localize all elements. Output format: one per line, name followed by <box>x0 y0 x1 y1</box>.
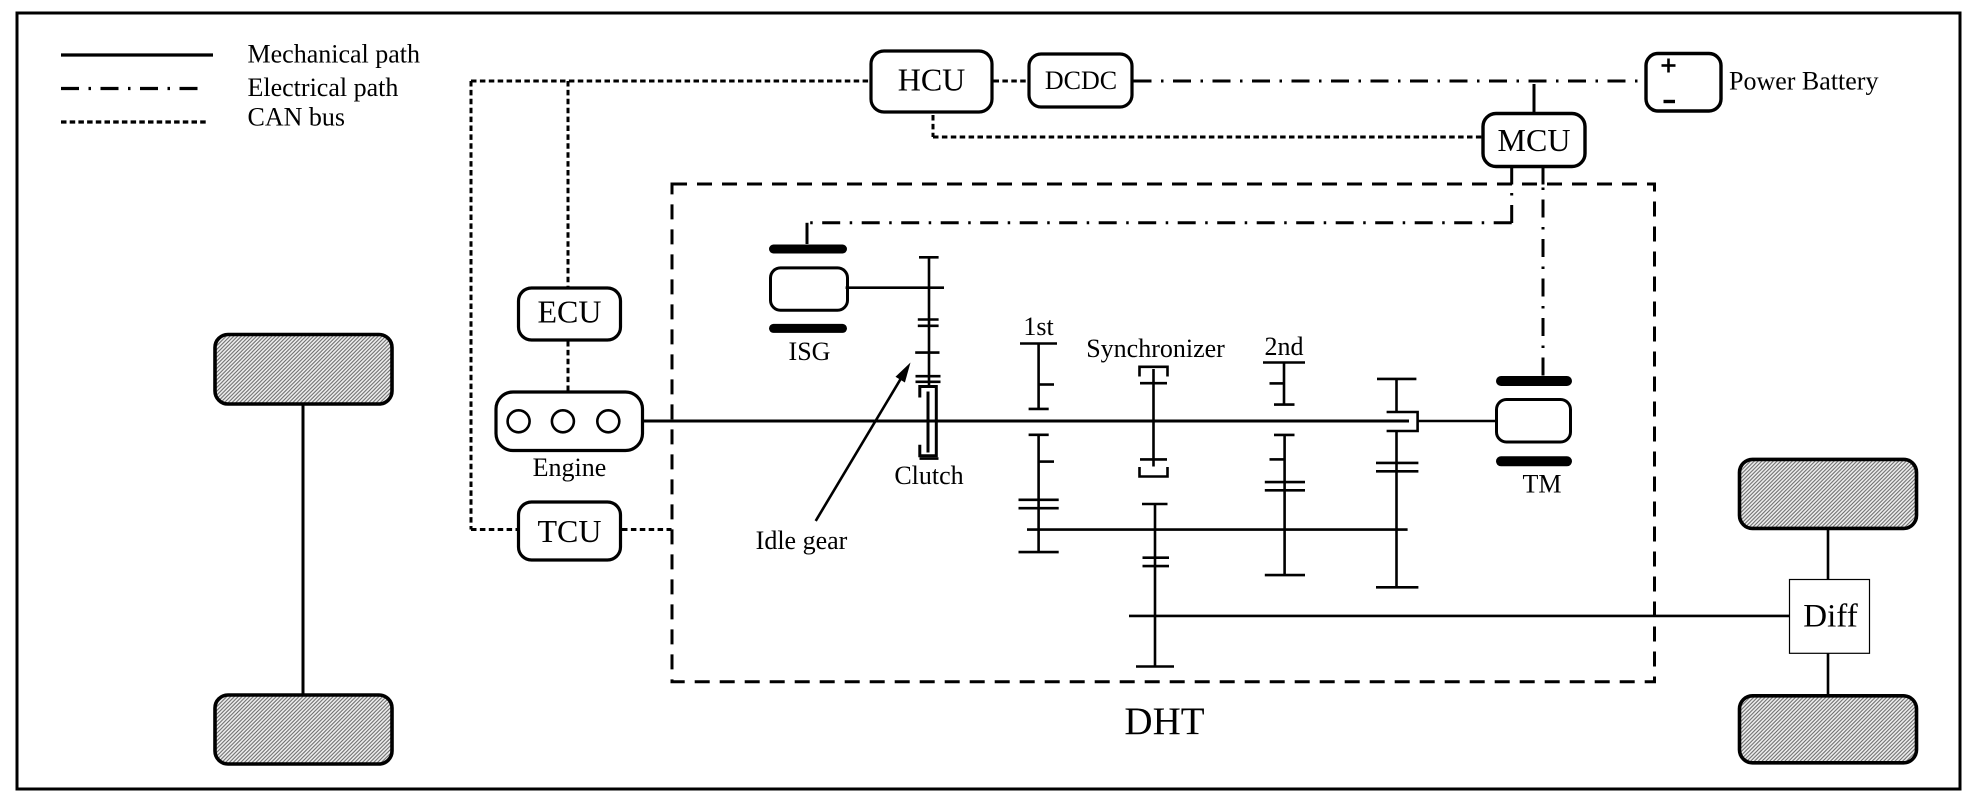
Power Battery box <box>1646 54 1721 112</box>
idle gear shaft vertical <box>928 257 931 386</box>
Diff box <box>1790 580 1870 654</box>
legend: CAN bus label <box>248 102 346 131</box>
svg-text:DHT: DHT <box>1124 700 1204 743</box>
synchronizer shaft vertical <box>1152 369 1155 467</box>
output gear column <box>1376 379 1418 587</box>
1st gear label <box>1023 312 1054 341</box>
svg-text:Clutch: Clutch <box>894 461 963 490</box>
output shaft hub bracket <box>1387 412 1418 431</box>
svg-text:TCU: TCU <box>538 513 602 549</box>
wire: electrical path DCDC to Power Battery <box>1134 80 1646 83</box>
HCU box <box>871 51 992 112</box>
MCU box <box>1483 114 1585 167</box>
2nd input gear <box>1263 363 1305 405</box>
legend: electrical path sample line <box>61 87 206 90</box>
wire: battery line to MCU top stub <box>1533 84 1536 114</box>
wire: main shaft engine to clutch/gears <box>643 420 1410 423</box>
synchronizer sleeve upper bracket <box>1140 367 1168 383</box>
wire: CAN bus TCU right to DHT box <box>622 528 672 531</box>
clutch bottom cap <box>920 457 939 460</box>
wire: electrical path MCU down to TM <box>1542 185 1545 376</box>
svg-text:Diff: Diff <box>1803 599 1857 635</box>
right wheel top <box>1740 459 1917 528</box>
wire: electrical path ISG top stub <box>806 223 809 244</box>
svg-text:DCDC: DCDC <box>1045 66 1117 95</box>
Idle gear label <box>756 526 848 555</box>
wire: CAN bus HCU bottom stub <box>932 115 935 137</box>
TM stator bottom bar <box>1496 456 1572 466</box>
TCU box <box>519 502 621 560</box>
TM rotor body <box>1497 400 1571 443</box>
svg-text:Engine: Engine <box>533 453 607 482</box>
2nd counter gear <box>1265 435 1305 575</box>
ISG stator top bar <box>769 245 847 254</box>
wire: electrical path MCU to ISG horizontal <box>807 221 1512 224</box>
svg-text:MCU: MCU <box>1498 122 1571 158</box>
idle gear mesh bars upper <box>918 320 939 326</box>
wire: CAN bus left vertical down to TCU level <box>470 81 473 530</box>
svg-text:2nd: 2nd <box>1265 332 1304 361</box>
Engine box with three cylinders <box>496 392 643 451</box>
clutch mesh bars <box>916 376 941 382</box>
wire: right axle lower <box>1827 653 1830 696</box>
wire: CAN bus vertical down to ECU <box>567 81 570 287</box>
wire: ISG to idle gear shaft <box>846 286 944 289</box>
wire: left axle <box>302 404 305 695</box>
wire: CAN bus HCU to DCDC <box>994 80 1029 83</box>
wire: CAN bus into TCU left <box>471 528 517 531</box>
Clutch label <box>894 461 963 490</box>
svg-text:Mechanical path: Mechanical path <box>248 39 421 68</box>
svg-text:Electrical path: Electrical path <box>248 73 399 102</box>
idle gear shaft top cap <box>919 256 939 259</box>
left wheel bottom <box>215 695 392 764</box>
ISG stator bottom bar <box>769 324 847 333</box>
wire: MCU bottom left stub <box>1510 166 1513 185</box>
wire: output shaft to Diff <box>1129 615 1790 618</box>
svg-text:CAN bus: CAN bus <box>248 102 346 131</box>
right wheel bottom <box>1740 696 1917 763</box>
Engine label <box>533 453 607 482</box>
wire: MCU bottom right stub <box>1542 166 1545 185</box>
left wheel top <box>215 335 392 405</box>
svg-text:Synchronizer: Synchronizer <box>1086 334 1225 363</box>
ECU box <box>519 288 621 340</box>
wire: shaft hub to TM <box>1418 420 1497 423</box>
DHT label <box>1124 700 1204 743</box>
TM stator top bar <box>1496 376 1572 386</box>
svg-text:ISG: ISG <box>789 337 831 366</box>
svg-text:Power Battery: Power Battery <box>1729 67 1878 96</box>
clutch inner plate <box>927 392 930 453</box>
DCDC box <box>1029 54 1132 107</box>
svg-text:1st: 1st <box>1023 312 1054 341</box>
legend: mechanical path sample line <box>61 53 213 56</box>
synchronizer sleeve lower bracket <box>1140 459 1168 476</box>
synchronizer lower gear <box>1136 504 1174 667</box>
Synchronizer label <box>1086 334 1225 363</box>
wire: countershaft <box>1027 528 1408 531</box>
svg-text:TM: TM <box>1523 470 1562 499</box>
clutch housing <box>920 387 937 456</box>
wire: CAN bus top horizontal to HCU <box>471 80 869 83</box>
wire: CAN bus HCU to MCU horizontal <box>933 136 1482 139</box>
legend: mechanical path label <box>248 39 421 68</box>
legend: CAN bus sample line <box>61 120 208 123</box>
idle gear tick <box>915 351 939 354</box>
TM label <box>1523 470 1562 499</box>
wire: electrical path MCU down elbow <box>1510 184 1513 223</box>
idle gear pointer arrow <box>816 363 911 521</box>
1st counter gear <box>1019 435 1059 552</box>
legend: electrical path label <box>248 73 399 102</box>
svg-text:ECU: ECU <box>538 294 602 330</box>
svg-text:Idle gear: Idle gear <box>756 526 848 555</box>
ISG label <box>789 337 831 366</box>
wire: CAN bus ECU to Engine <box>567 341 570 391</box>
wire: right axle upper <box>1827 529 1830 580</box>
ISG rotor body <box>771 268 848 310</box>
2nd gear label <box>1265 332 1304 361</box>
DHT dashed boundary box <box>672 184 1655 682</box>
svg-text:HCU: HCU <box>898 62 966 98</box>
1st input gear <box>1020 344 1057 409</box>
Power Battery label <box>1729 67 1878 96</box>
